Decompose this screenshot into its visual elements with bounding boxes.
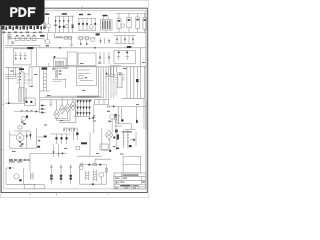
filter caps A5 xyxy=(116,14,147,33)
terminal box K1 xyxy=(123,156,140,173)
bridge BR3 xyxy=(65,100,71,113)
label row under badge xyxy=(2,26,46,33)
filter bank top-right xyxy=(114,36,135,44)
sense comp left xyxy=(64,128,79,140)
output electrolytics xyxy=(50,165,72,185)
connector row center xyxy=(63,128,75,132)
bridge BR2 xyxy=(59,98,65,115)
regulator circuit xyxy=(114,99,146,133)
terminal strip J1 xyxy=(24,184,44,188)
zener D21 xyxy=(29,131,31,140)
ic U302 xyxy=(115,73,125,88)
cap bank C31 xyxy=(50,134,71,157)
relay box C3 xyxy=(67,52,110,66)
heatsink bars xyxy=(19,88,27,102)
left sense circuit xyxy=(14,98,39,131)
rc filter row xyxy=(78,14,96,30)
wire audio feed xyxy=(30,153,67,173)
diode matrix D301 xyxy=(74,99,92,119)
power transistor Q1 xyxy=(10,131,37,149)
lc filter xyxy=(55,34,74,47)
inverter section xyxy=(80,163,108,185)
transistor Q101 xyxy=(44,13,51,32)
wire top bus xyxy=(5,32,146,34)
label audio note xyxy=(9,159,30,162)
title block xyxy=(114,173,146,189)
snubber box C1 xyxy=(13,47,33,65)
output caps A6 xyxy=(136,14,147,33)
bridge BR5 xyxy=(76,128,119,156)
input box C4 xyxy=(114,48,141,99)
wire harness xyxy=(77,67,114,99)
wire around U302 xyxy=(106,66,145,99)
wire main bus xyxy=(5,45,146,48)
capacitor group C210 xyxy=(100,38,110,44)
winding L201 xyxy=(53,69,67,88)
bridge BR1 xyxy=(54,100,60,119)
transformer T201 xyxy=(54,56,69,69)
bias network xyxy=(36,128,47,148)
driver Q41 xyxy=(6,167,36,184)
driver cluster xyxy=(92,105,146,134)
opto box xyxy=(77,67,97,86)
connector arrows J301 xyxy=(39,104,46,113)
cap ladder right xyxy=(123,130,130,148)
rc network B3 xyxy=(77,33,100,44)
input comps left xyxy=(8,35,37,67)
control box xyxy=(95,99,109,104)
rectifier D51 xyxy=(129,132,136,147)
wire lower bus xyxy=(5,67,99,113)
oscillator Q202 xyxy=(40,34,50,47)
bridge BR4 xyxy=(50,98,76,123)
resistor chain R201 xyxy=(8,34,44,45)
transformer T301 xyxy=(40,63,50,91)
ic U301 xyxy=(5,67,27,87)
label ref designators xyxy=(10,62,145,155)
diode bank D101-D105 xyxy=(54,13,74,32)
pdf badge xyxy=(0,0,45,26)
wire mid bus xyxy=(29,66,146,68)
transformer block A4 xyxy=(101,15,113,33)
relay K2 xyxy=(95,144,119,165)
wire left of U301 xyxy=(5,67,32,103)
